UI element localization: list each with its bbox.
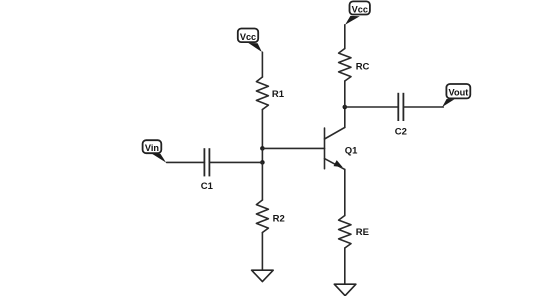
svg-text:RC: RC bbox=[356, 62, 370, 73]
svg-text:C2: C2 bbox=[395, 126, 407, 137]
resistor RE bbox=[339, 216, 369, 248]
node input junction bbox=[260, 160, 265, 165]
resistor RC bbox=[339, 49, 370, 81]
ground (right) bbox=[334, 284, 356, 296]
svg-text:RE: RE bbox=[356, 227, 369, 238]
wire node to C2 bbox=[345, 106, 399, 108]
wire base bbox=[262, 147, 324, 149]
wire Vin to C1 bbox=[167, 161, 205, 163]
wire R1 bottom to base junction bbox=[261, 110, 263, 149]
wire RC top to Vcc bbox=[344, 25, 346, 49]
wire input junction to R2 top bbox=[261, 162, 263, 200]
power label Vcc (RC branch) bbox=[345, 1, 370, 24]
resistor R2 bbox=[256, 200, 284, 232]
node base junction bbox=[260, 146, 265, 151]
output label Vout bbox=[442, 84, 470, 107]
wire collector to node bbox=[344, 107, 346, 127]
svg-text:Vcc: Vcc bbox=[352, 5, 368, 15]
wire C2 to Vout bbox=[403, 106, 443, 108]
ground (left) bbox=[252, 270, 274, 281]
wire C1 to input junction bbox=[209, 161, 262, 163]
svg-text:Vout: Vout bbox=[449, 87, 469, 97]
wire base junction to input junction bbox=[261, 148, 263, 162]
svg-text:R1: R1 bbox=[272, 89, 285, 100]
wire emitter to RE top bbox=[344, 169, 346, 215]
svg-text:Vin: Vin bbox=[145, 143, 160, 153]
capacitor C1 bbox=[201, 148, 214, 192]
svg-text:Q1: Q1 bbox=[345, 145, 358, 156]
input label Vin bbox=[143, 140, 167, 162]
wire node to RC bottom bbox=[344, 81, 346, 107]
svg-text:Vcc: Vcc bbox=[240, 32, 256, 42]
node collector junction bbox=[343, 105, 348, 110]
wire Vcc to R1 top bbox=[261, 52, 263, 77]
svg-text:C1: C1 bbox=[201, 181, 214, 192]
wire RE bottom to ground bbox=[344, 248, 346, 284]
wire R2 bottom to ground bbox=[261, 233, 263, 271]
svg-text:R2: R2 bbox=[273, 214, 285, 225]
resistor R1 bbox=[256, 77, 284, 109]
transistor Q1 bbox=[325, 127, 359, 169]
capacitor C2 bbox=[395, 93, 407, 138]
power label Vcc (R1 branch) bbox=[238, 29, 262, 53]
